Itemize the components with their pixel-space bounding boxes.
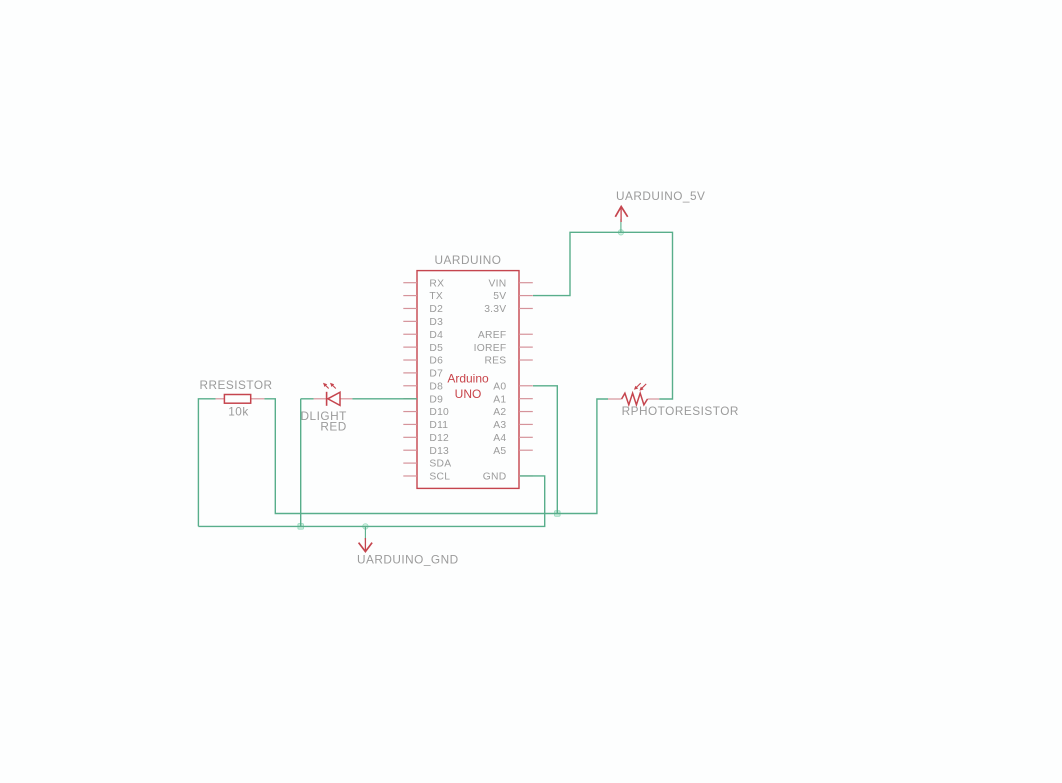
- IC UARDUINO (Arduino UNO) body: [417, 271, 519, 489]
- wire: net A0 from A0 pin right then down to junction: [533, 386, 557, 514]
- svg-text:D3: D3: [429, 317, 443, 328]
- pin D5 (left): [403, 343, 443, 354]
- wire: divider node horizontal run (resistor right end to photoresistor bottom lead): [264, 399, 608, 514]
- svg-text:D4: D4: [429, 330, 443, 341]
- pin D7 (left): [403, 369, 443, 380]
- pin D10 (left): [403, 407, 449, 418]
- label UARDUINO (part name): [435, 253, 502, 267]
- wire: LED cathode left lead and drop to GND rail: [301, 399, 314, 527]
- svg-text:A4: A4: [493, 433, 506, 444]
- svg-text:RX: RX: [429, 278, 444, 289]
- pin D11 (left): [403, 420, 448, 431]
- svg-text:10k: 10k: [228, 404, 249, 418]
- svg-text:VIN: VIN: [488, 278, 506, 289]
- wire: net UARDUINO_5V from 5V pin up and over to photoresistor top lead: [533, 232, 673, 399]
- label UARDUINO_GND (net name): [357, 553, 459, 567]
- photoresistor RPHOTORESISTOR zigzag body: [622, 393, 648, 405]
- svg-text:UNO: UNO: [455, 387, 482, 401]
- svg-text:D12: D12: [429, 433, 449, 444]
- svg-text:A2: A2: [493, 407, 506, 418]
- svg-text:UARDUINO_5V: UARDUINO_5V: [616, 189, 705, 203]
- pin D3 (left): [403, 317, 443, 328]
- svg-text:D7: D7: [429, 369, 443, 380]
- svg-text:SDA: SDA: [429, 459, 451, 470]
- LED DLIGHT emission arrows: [323, 383, 336, 389]
- svg-text:D11: D11: [429, 420, 448, 431]
- pin VIN (right): [488, 278, 532, 289]
- svg-text:UARDUINO: UARDUINO: [435, 253, 502, 267]
- junction: LED cathode column joins GND wire: [298, 524, 304, 530]
- pin RES (right): [484, 356, 532, 367]
- svg-text:A5: A5: [493, 446, 506, 457]
- pin D2 (left): [403, 304, 443, 315]
- pin IOREF (right): [474, 343, 533, 354]
- LED DLIGHT cathode bar: [326, 392, 328, 406]
- svg-text:RED: RED: [320, 419, 346, 433]
- pin RX (left): [403, 278, 444, 289]
- svg-text:5V: 5V: [493, 291, 506, 302]
- svg-text:SCL: SCL: [429, 472, 450, 483]
- LED DLIGHT leads: [314, 398, 353, 400]
- pin A2 (right): [493, 407, 533, 418]
- photoresistor incident light arrows: [634, 383, 646, 391]
- svg-text:GND: GND: [483, 472, 507, 483]
- power symbol UARDUINO_5V (up arrow): [615, 207, 627, 233]
- pin A3 (right): [493, 420, 533, 431]
- label Arduino UNO (value): [447, 371, 489, 401]
- svg-text:A1: A1: [493, 394, 506, 405]
- pin A0 (right): [493, 381, 533, 392]
- svg-text:A0: A0: [493, 381, 506, 392]
- pin AREF (right): [478, 330, 533, 341]
- svg-text:IOREF: IOREF: [474, 343, 507, 354]
- pin A4 (right): [493, 433, 533, 444]
- pin TX (left): [403, 291, 443, 302]
- label DLIGHT (name): [301, 409, 347, 423]
- pin GND (right): [483, 472, 533, 483]
- pin SCL (left): [403, 472, 450, 483]
- label RED (value): [320, 419, 346, 433]
- svg-text:Arduino: Arduino: [447, 371, 489, 385]
- resistor RRESISTOR body: [224, 395, 250, 404]
- pin 3.3V (right): [484, 304, 533, 315]
- svg-text:AREF: AREF: [478, 330, 506, 341]
- wire: LED anode to Arduino pin D9: [352, 398, 417, 400]
- svg-text:D2: D2: [429, 304, 443, 315]
- svg-text:D13: D13: [429, 446, 449, 457]
- svg-text:RRESISTOR: RRESISTOR: [199, 378, 272, 392]
- pin SDA (left): [403, 459, 451, 470]
- svg-text:TX: TX: [429, 291, 443, 302]
- wire: resistor left end down to GND rail: [198, 399, 215, 527]
- pin A1 (right): [493, 394, 533, 405]
- svg-text:RES: RES: [484, 356, 506, 367]
- resistor RRESISTOR leads: [216, 398, 265, 400]
- photoresistor RPHOTORESISTOR leads: [608, 398, 659, 400]
- pin D4 (left): [403, 330, 443, 341]
- svg-text:UARDUINO_GND: UARDUINO_GND: [357, 553, 459, 567]
- junction: A0 net joins top horizontal wire: [555, 511, 561, 517]
- svg-text:D6: D6: [429, 356, 443, 367]
- junction: GND symbol stem joins GND wire: [363, 524, 368, 529]
- svg-text:D9: D9: [429, 394, 443, 405]
- wire: GND rail along bottom, up to GND pin: [198, 476, 544, 526]
- label 10k (value): [228, 404, 249, 418]
- pin 5V (right): [493, 291, 533, 302]
- label RPHOTORESISTOR (name): [622, 404, 739, 418]
- label RRESISTOR (name): [199, 378, 272, 392]
- pin D13 (left): [403, 446, 449, 457]
- LED DLIGHT triangle (anode): [328, 392, 340, 405]
- svg-text:D8: D8: [429, 381, 443, 392]
- ground symbol UARDUINO_GND (down arrow): [359, 526, 373, 551]
- label UARDUINO_5V (net name): [616, 189, 705, 203]
- svg-text:D10: D10: [429, 407, 449, 418]
- pin D12 (left): [403, 433, 449, 444]
- pin D6 (left): [403, 356, 443, 367]
- pin D9 (left): [403, 394, 443, 405]
- svg-text:3.3V: 3.3V: [484, 304, 506, 315]
- junction: 5V symbol stem joins 5V wire: [618, 230, 623, 235]
- svg-text:A3: A3: [493, 420, 506, 431]
- svg-text:RPHOTORESISTOR: RPHOTORESISTOR: [622, 404, 739, 418]
- pin A5 (right): [493, 446, 533, 457]
- svg-text:D5: D5: [429, 343, 443, 354]
- pin D8 (left): [403, 381, 443, 392]
